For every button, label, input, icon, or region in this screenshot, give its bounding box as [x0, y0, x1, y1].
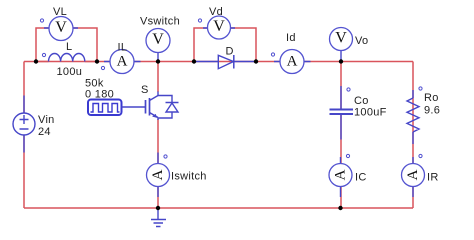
pulse source V50k	[85, 78, 122, 116]
svg-text:24: 24	[38, 126, 51, 138]
voltmeter VL	[40, 6, 78, 41]
svg-text:V: V	[335, 29, 347, 46]
ground	[151, 208, 166, 227]
wire: right rail Ro branch	[412, 62, 414, 209]
svg-text:Iswitch: Iswitch	[171, 171, 207, 183]
voltmeter Vo	[330, 28, 369, 62]
svg-text:V: V	[213, 18, 225, 35]
source Vin	[13, 96, 55, 153]
wire: Vd loop	[194, 28, 256, 62]
svg-text:0 180: 0 180	[85, 89, 114, 101]
svg-text:S: S	[141, 84, 149, 96]
svg-text:Vd: Vd	[209, 6, 223, 18]
svg-text:A: A	[287, 53, 298, 69]
svg-text:A: A	[332, 169, 348, 180]
ammeter IL	[101, 42, 140, 74]
ammeter IC	[329, 154, 367, 197]
resistor Ro	[407, 87, 440, 144]
svg-text:9.6: 9.6	[424, 105, 440, 117]
svg-text:V: V	[55, 19, 67, 36]
wire: gate lead	[122, 106, 146, 108]
svg-text:VL: VL	[53, 6, 67, 18]
svg-text:Co: Co	[354, 95, 369, 107]
ammeter IR	[402, 154, 439, 197]
svg-text:L: L	[66, 41, 72, 53]
wire: Co / IC branch x=341	[340, 62, 342, 209]
svg-text:V: V	[152, 31, 164, 48]
svg-text:IR: IR	[427, 172, 439, 184]
svg-text:Vswitch: Vswitch	[140, 16, 180, 28]
svg-text:100u: 100u	[57, 66, 83, 78]
voltmeter Vd	[198, 6, 235, 39]
diode: body diode of S	[166, 103, 179, 113]
voltmeter Vswitch	[140, 16, 180, 62]
wire: switch branch x=158	[157, 62, 159, 209]
svg-text:D: D	[226, 46, 234, 58]
svg-text:A: A	[150, 169, 166, 180]
inductor L	[36, 41, 97, 78]
svg-text:A: A	[117, 53, 128, 69]
wire: bottom rail y=208	[24, 207, 413, 209]
svg-text:100uF: 100uF	[354, 107, 387, 119]
wire: left rail Vin branch	[23, 62, 25, 209]
svg-text:A: A	[405, 169, 421, 180]
ammeter Iswitch	[147, 153, 207, 198]
transistor S (IGBT switch)	[141, 84, 172, 120]
node: junction dots	[34, 59, 343, 210]
diode D	[194, 46, 256, 69]
svg-text:Vin: Vin	[38, 114, 55, 126]
wire: top rail y=61.5	[24, 61, 413, 63]
svg-text:Id: Id	[286, 32, 296, 44]
wire: VL loop	[36, 28, 97, 62]
svg-text:IC: IC	[355, 172, 367, 184]
capacitor Co	[330, 86, 387, 140]
ammeter Id	[271, 32, 310, 74]
svg-text:Vo: Vo	[355, 35, 368, 47]
svg-text:IL: IL	[118, 42, 128, 54]
svg-text:Ro: Ro	[424, 92, 439, 104]
